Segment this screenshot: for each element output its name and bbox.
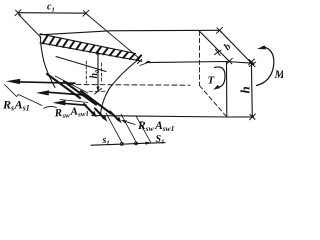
tick on oblique edge <box>215 49 221 55</box>
h0 bottom oblique tick <box>95 89 102 95</box>
tick at h bottom <box>250 114 256 120</box>
inclined crack curve on front face <box>101 60 139 116</box>
front-top edge with extension <box>146 62 253 64</box>
stirrup dashed vertical 2 <box>101 63 103 83</box>
front-right vertical edge <box>226 62 228 118</box>
svg-text:s1: s1 <box>102 135 110 147</box>
h0 top arrow <box>96 50 99 55</box>
leader swoosh for left RswAsw1 label <box>44 106 57 108</box>
thick crack arrow E3 <box>110 112 119 121</box>
h dimension line <box>250 62 253 117</box>
hidden crack trace on rear face: vertical dashed <box>199 31 201 86</box>
svg-text:S1: S1 <box>156 134 165 146</box>
hatched compression band: bottom boundary <box>40 43 142 61</box>
leader to RsAs1 label <box>5 85 43 106</box>
thick crack arrow E2 <box>95 109 105 119</box>
h0 dimension line <box>97 51 99 92</box>
force arrow Rsw 1 <box>47 92 84 95</box>
T torque circular arrow <box>215 67 226 87</box>
dimension c1 line <box>18 12 86 15</box>
rebar axis dashed line <box>68 84 190 87</box>
stirrup dashed vertical 1 <box>85 61 87 83</box>
s1 dim loop tick 2 <box>135 142 138 145</box>
svg-text:T: T <box>208 75 216 87</box>
tick near band tip <box>138 60 142 64</box>
force arrow RsAs1 <box>16 82 75 83</box>
beam bottom edge with extension <box>92 116 254 117</box>
M moment arc arrow <box>257 47 274 86</box>
svg-text:RswAsw1: RswAsw1 <box>137 120 174 133</box>
thick crack-stirrup stroke D3 <box>81 91 111 114</box>
force arrow Rsw 2 <box>63 103 86 105</box>
extension line right of c1 <box>87 14 140 59</box>
svg-text:h: h <box>238 86 253 93</box>
s1 dim arrow right <box>145 142 151 145</box>
tick c1 left <box>15 10 21 16</box>
s1 extension line 2 <box>121 114 137 144</box>
extension line left of c1 <box>19 15 42 38</box>
tick at rear-top right end <box>217 27 223 33</box>
hidden crack trace on rear face: diagonal dashed <box>200 86 226 116</box>
torn left edge curve <box>40 37 55 88</box>
svg-text:h0: h0 <box>89 69 101 79</box>
svg-text:c1: c1 <box>47 2 55 14</box>
thick crack-stirrup stroke D1 <box>47 74 80 98</box>
b dimension line <box>220 31 253 65</box>
thick crack arrow E1 <box>84 104 94 115</box>
beam rear-top edge <box>40 30 220 35</box>
tick c1 right <box>83 10 89 16</box>
leader arrow for right RswAsw1 label <box>126 122 136 125</box>
tick at h top <box>249 59 255 65</box>
thin crack line above D2 <box>60 100 88 103</box>
thin crack line above D1 <box>55 76 88 93</box>
svg-text:RsAs1: RsAs1 <box>2 98 30 113</box>
s1 extension line 3 <box>136 116 151 143</box>
secondary crack line below band <box>56 57 106 72</box>
tick at front-top edge / oblique junction <box>226 58 232 64</box>
s1 extension line 1 <box>106 113 123 145</box>
tick at b dim lower end <box>249 62 255 67</box>
h0 bottom tick line <box>89 90 106 92</box>
hatch strokes <box>43 36 141 60</box>
h0 bottom arrow <box>96 87 99 92</box>
s1 dimension line <box>91 143 165 146</box>
svg-text:M: M <box>274 69 284 81</box>
beam oblique top-right edge <box>199 31 229 62</box>
s1 dim loop tick 1 <box>120 142 123 145</box>
svg-text:RswAsw1: RswAsw1 <box>53 105 89 121</box>
thick crack-stirrup stroke D2 <box>64 82 96 105</box>
hatched compression band: top boundary <box>40 34 136 54</box>
hatch band tip arrow <box>140 61 151 66</box>
